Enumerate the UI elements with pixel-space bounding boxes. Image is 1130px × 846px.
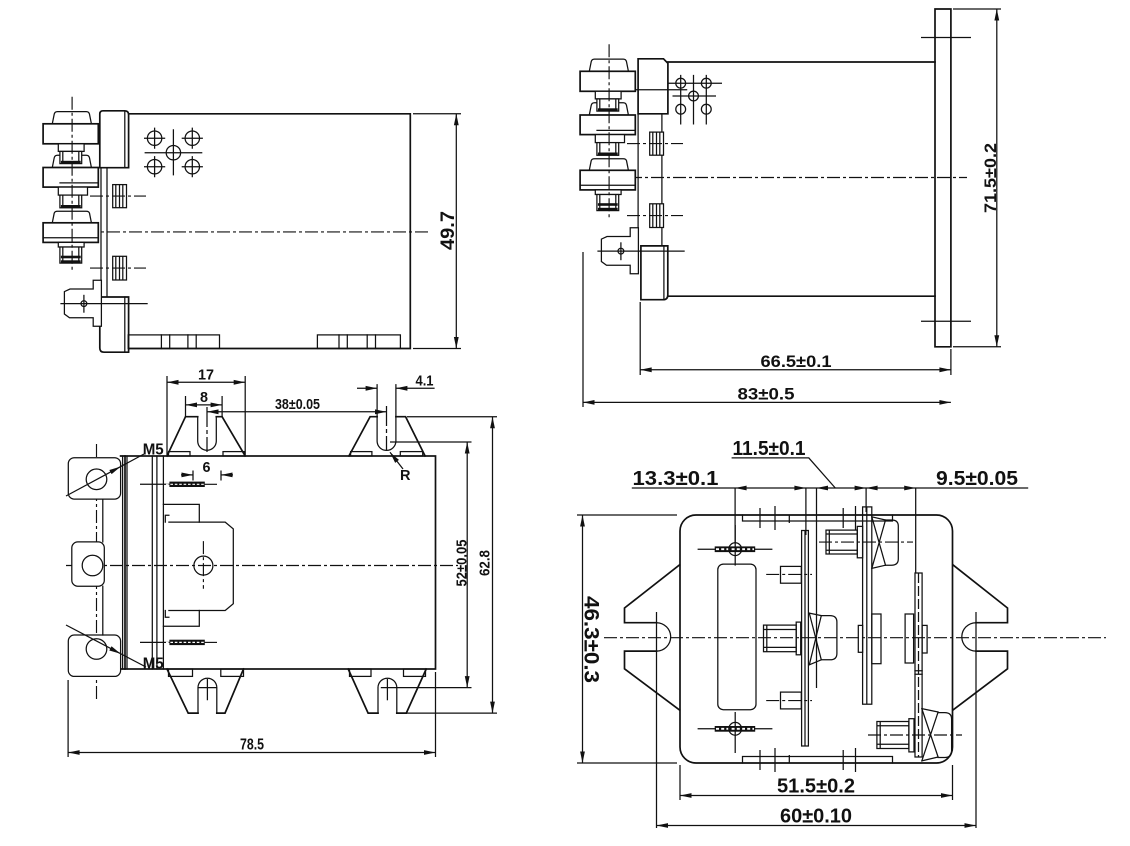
terminal screw A shaft	[60, 151, 82, 163]
blade 1 lower tab	[766, 692, 812, 709]
top edge ticks	[760, 506, 856, 530]
terminal screw C washer	[58, 242, 84, 247]
contact blade 3	[915, 573, 922, 757]
dim 13.3 / 11.5 / 9.5 base line	[632, 487, 1028, 489]
armature plate	[163, 504, 233, 626]
blade 1 upper tab	[766, 566, 812, 583]
dim 71.5 extension lines	[953, 9, 1001, 347]
bottom bolt	[868, 709, 962, 761]
screw axis center line	[71, 97, 73, 272]
body outline	[668, 62, 935, 296]
VIEW4 : relay bottom view (bottom-right)	[577, 438, 1106, 828]
flange top block	[100, 111, 129, 168]
rivet cluster	[144, 128, 203, 178]
terminal screw B washer	[58, 187, 87, 195]
svg-text:71.5±0.2: 71.5±0.2	[981, 143, 1000, 213]
center line	[85, 231, 430, 233]
quick-connect tab 2	[72, 542, 105, 586]
mid bolt	[764, 613, 837, 665]
svg-text:78.5: 78.5	[240, 737, 264, 754]
terminal screw B nut block	[43, 168, 98, 188]
tab axis center line	[96, 444, 98, 702]
body outline	[125, 114, 410, 349]
dim 4.1	[357, 373, 435, 390]
svg-text:17: 17	[198, 368, 214, 384]
wing right	[953, 565, 1008, 710]
svg-text:13.3±0.1: 13.3±0.1	[633, 468, 719, 490]
dim 51.5	[680, 765, 953, 800]
dim 83 line	[583, 400, 951, 405]
flange plate	[638, 114, 662, 246]
dim 46.3	[577, 515, 677, 763]
label M5 top	[66, 442, 164, 497]
coil window capsule	[718, 564, 756, 710]
svg-text:M5: M5	[143, 442, 164, 459]
label R	[388, 451, 411, 484]
dim 78.5	[68, 672, 435, 757]
dim 71.5 line	[994, 9, 999, 347]
rivet cluster (front)	[668, 75, 722, 125]
wing left slot arc	[657, 623, 671, 651]
coil screw symbol bottom	[698, 712, 773, 753]
dim extension lines top	[735, 488, 916, 688]
tab terminal 2 (side)	[90, 256, 146, 280]
svg-text:6: 6	[203, 460, 211, 476]
edge notches between tabs	[102, 499, 104, 635]
wing left	[625, 565, 680, 710]
svg-text:46.3±0.3: 46.3±0.3	[580, 596, 603, 683]
blade 2 contacts	[858, 614, 881, 664]
svg-text:52±0.05: 52±0.05	[455, 540, 471, 587]
coil bobbin edge	[162, 456, 164, 669]
svg-text:66.5±0.1: 66.5±0.1	[761, 352, 832, 371]
terminal screw C head dome	[52, 211, 91, 223]
main center line	[604, 637, 1106, 639]
quick-connect tab 3	[68, 635, 120, 676]
ear bottom-right	[348, 669, 426, 713]
dim 38	[207, 397, 387, 414]
terminal screw A nut block	[43, 124, 98, 144]
coil bracket	[60, 280, 147, 326]
bottom edge notch	[743, 757, 893, 764]
dim 17	[167, 368, 245, 456]
mounting flange bar	[921, 9, 971, 347]
center line	[585, 177, 967, 179]
contact blade 2	[863, 507, 872, 704]
svg-text:M5: M5	[143, 656, 164, 673]
foot group left	[128, 335, 219, 349]
center line	[66, 565, 458, 567]
svg-text:49.7: 49.7	[438, 211, 459, 250]
ear bottom-left	[167, 669, 244, 713]
top bolt	[819, 517, 913, 569]
dim 49.7 line	[454, 114, 459, 349]
terminal screw A washer	[58, 144, 84, 152]
svg-text:60±0.10: 60±0.10	[780, 806, 852, 828]
terminal screw B shaft	[60, 195, 82, 208]
flange plate top block	[635, 59, 687, 114]
wing right slot arc	[962, 623, 976, 651]
VIEW2 : relay front view with mounting flange (top-right)	[580, 9, 1001, 407]
terminal screw C shaft	[60, 247, 82, 263]
terminal screw C nut block	[43, 223, 98, 243]
yoke plate inner pair	[152, 456, 157, 669]
dim 6	[181, 460, 233, 481]
ear top-left	[167, 407, 245, 456]
dim 83 extension line	[582, 252, 584, 407]
blade 3 contacts	[905, 614, 927, 663]
quick-connect tab 1	[68, 458, 120, 499]
top edge notch	[743, 515, 893, 521]
contact blade 1	[802, 531, 809, 747]
M5 screw shank bottom	[140, 640, 217, 645]
dim 62.8	[406, 417, 497, 713]
dim 52	[381, 442, 472, 688]
dim 66.5 line	[640, 367, 951, 372]
coil screw symbol top	[698, 525, 773, 566]
VIEW1 : relay side view (top-left)	[43, 97, 461, 352]
tab terminal 1 (side)	[90, 185, 146, 208]
dim 66.5 extension lines	[640, 302, 951, 375]
svg-text:9.5±0.05: 9.5±0.05	[936, 468, 1018, 490]
VIEW3 : relay top view (bottom-left)	[66, 368, 497, 758]
dim 11.5 text + leader	[732, 438, 836, 488]
label M5 bottom	[66, 625, 164, 673]
terminal screw B head dome	[52, 155, 91, 167]
M5 screw shank top	[140, 482, 217, 487]
dim 49.7 extension lines	[413, 114, 461, 349]
svg-text:51.5±0.2: 51.5±0.2	[777, 776, 855, 798]
body outline	[125, 456, 436, 669]
foot group right	[317, 335, 400, 349]
bottom edge ticks	[760, 748, 856, 772]
svg-text:62.8: 62.8	[477, 550, 493, 576]
svg-text:R: R	[400, 468, 411, 484]
svg-text:11.5±0.1: 11.5±0.1	[733, 438, 806, 460]
body outline rounded	[680, 515, 953, 763]
body top/bottom edge extension to plate	[121, 456, 125, 669]
svg-text:38±0.05: 38±0.05	[275, 397, 320, 413]
svg-text:4.1: 4.1	[416, 373, 434, 389]
svg-text:8: 8	[200, 390, 208, 406]
yoke plate outer pair	[123, 456, 127, 669]
flange strip	[101, 168, 107, 297]
dim arrows top	[735, 486, 916, 491]
flange bottom block	[100, 297, 129, 352]
terminal column (screws+tabs+bracket)	[580, 44, 685, 273]
ear top-right	[349, 385, 425, 456]
dim 60	[657, 612, 977, 828]
flange plate bottom block	[641, 246, 668, 300]
dim 8	[186, 390, 223, 417]
svg-text:83±0.5: 83±0.5	[738, 385, 795, 404]
terminal screw A head dome	[52, 112, 91, 124]
